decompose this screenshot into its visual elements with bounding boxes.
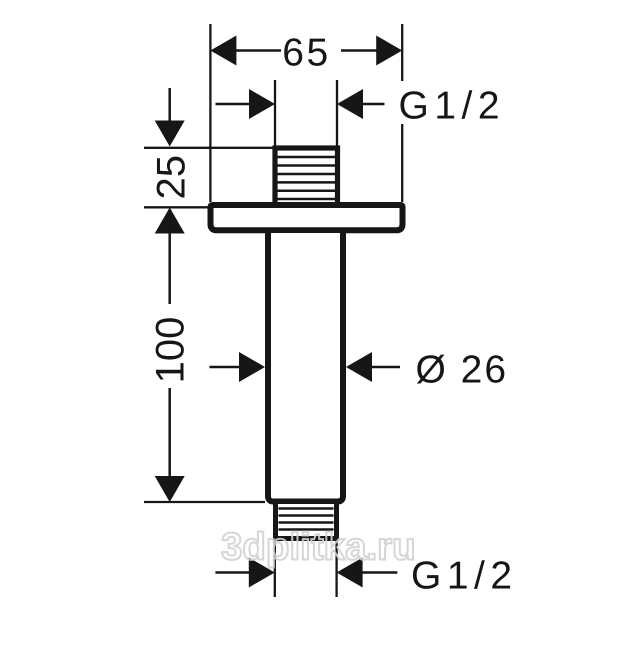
svg-text:25: 25 (150, 155, 194, 200)
dim 65: left extension line (209, 24, 211, 202)
dim G1/2 bottom: left extension line (274, 540, 276, 597)
dim G1/2 top: left extension line (274, 80, 276, 147)
svg-text:Ø 26: Ø 26 (416, 349, 509, 392)
svg-text:G1/2: G1/2 (411, 555, 518, 598)
svg-text:G1/2: G1/2 (399, 85, 506, 128)
dim G1/2 bottom: right extension line (335, 540, 337, 597)
bottom nipple G1/2 thread (276, 504, 337, 539)
dim G1/2 bottom: left arrow (249, 558, 275, 588)
dim 100: lower shaft and down arrow (168, 388, 171, 477)
svg-text:3dplitka.ru: 3dplitka.ru (221, 526, 416, 569)
dim G1/2 top: right extension line (336, 80, 338, 147)
dim 25 / dim 100: up arrow at flange top (155, 208, 185, 234)
dim Ø26: left arrow (239, 352, 265, 382)
dim G1/2 top: left arrow (249, 89, 275, 119)
svg-text:100: 100 (149, 317, 193, 384)
dim 65: right extension line upper (401, 24, 403, 81)
dim Ø26: right arrow (346, 352, 372, 382)
dim 65: left arrow (210, 36, 236, 66)
dim 25: upper shaft and down arrow (168, 88, 171, 123)
extension line flange top (25 lower / 100 upper bound) (144, 206, 208, 208)
extension line nipple top (25 upper bound) (144, 147, 273, 149)
dim G1/2 top: right arrow (337, 89, 363, 119)
dim G1/2 bottom: right arrow (337, 558, 363, 588)
dim 65: right arrow (376, 36, 402, 66)
extension line pipe bottom (100 lower bound) (144, 501, 265, 503)
svg-text:65: 65 (282, 32, 330, 75)
ceiling flange (211, 205, 403, 230)
pipe body (268, 233, 343, 502)
dim 65: right extension line lower (401, 124, 403, 202)
top nipple G1/2 thread (275, 148, 338, 208)
